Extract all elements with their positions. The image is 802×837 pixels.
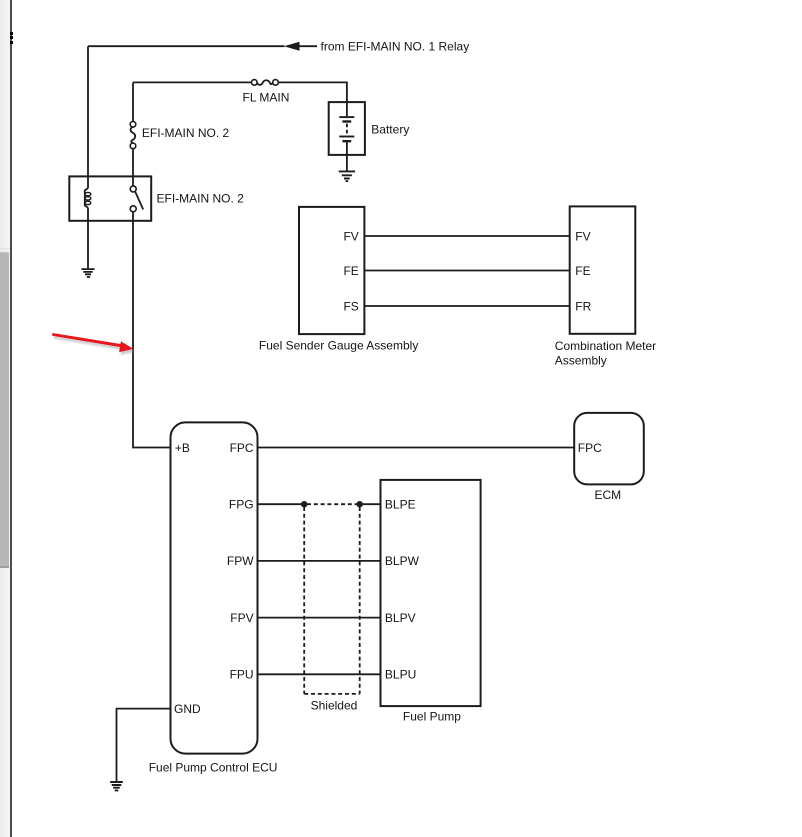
svg-text:FV: FV (343, 229, 358, 243)
svg-text:FR: FR (575, 299, 591, 313)
splitter border line (10, 0, 12, 837)
wire relay switch down to +B (133, 212, 171, 448)
svg-text:FL MAIN: FL MAIN (243, 91, 290, 105)
svg-text:Shielded: Shielded (311, 698, 358, 712)
svg-text:FE: FE (575, 264, 590, 278)
splitter grip dots (10, 32, 13, 35)
svg-text:FPV: FPV (230, 611, 253, 625)
junction dot right (357, 501, 363, 507)
relay box EFI-MAIN NO. 2 (69, 176, 151, 220)
svg-text:FE: FE (343, 264, 358, 278)
svg-text:+B: +B (175, 441, 190, 455)
fusible link EFI-MAIN NO. 2 (130, 122, 136, 149)
svg-text:ECM: ECM (595, 488, 622, 502)
fuel sender gauge assembly box (299, 207, 364, 334)
ground (relay coil) (81, 269, 94, 277)
svg-text:FS: FS (343, 299, 358, 313)
wire FV (364, 235, 569, 237)
battery box (329, 102, 365, 155)
svg-text:Fuel Pump: Fuel Pump (403, 709, 461, 723)
svg-text:Battery: Battery (371, 123, 409, 137)
svg-text:BLPV: BLPV (385, 611, 416, 625)
wire coil to ground (87, 208, 89, 269)
svg-text:from EFI-MAIN NO. 1 Relay: from EFI-MAIN NO. 1 Relay (321, 39, 470, 53)
svg-text:Assembly: Assembly (555, 354, 607, 368)
arrowhead pointing left (284, 42, 300, 51)
fuel pump control ECU box (171, 422, 258, 753)
ground (battery) (339, 171, 355, 181)
wire left vertical riser to relay coil (87, 46, 89, 188)
sidebar separator line (0, 248, 10, 249)
svg-text:FPU: FPU (230, 668, 254, 682)
relay switch contacts (130, 186, 143, 212)
sidebar panel (0, 0, 10, 837)
wire FPV (258, 617, 381, 619)
svg-text:Fuel Sender Gauge Assembly: Fuel Sender Gauge Assembly (259, 338, 418, 352)
svg-text:FPC: FPC (578, 441, 602, 455)
wire short segment arrow to label (299, 45, 317, 47)
svg-text:EFI-MAIN NO. 2: EFI-MAIN NO. 2 (142, 126, 230, 140)
red pointer arrow (52, 333, 135, 355)
wire GND to ground (117, 709, 171, 782)
svg-text:BLPW: BLPW (385, 554, 420, 568)
wire FPG dashed shield top (307, 503, 357, 505)
svg-text:EFI-MAIN NO. 2: EFI-MAIN NO. 2 (157, 191, 245, 205)
svg-text:BLPU: BLPU (385, 668, 416, 682)
wire FPG solid parts (258, 503, 381, 505)
wire FE (364, 270, 569, 272)
combination meter assembly box (570, 206, 636, 333)
shield dashed box (304, 507, 360, 694)
wire vertical from FL MAIN feed down to fusible link (132, 82, 134, 121)
junction dot left (301, 501, 307, 507)
fuel pump box (381, 480, 481, 706)
wire fusible link to relay switch (132, 149, 134, 186)
svg-text:Fuel Pump Control ECU: Fuel Pump Control ECU (149, 761, 278, 775)
svg-text:FV: FV (575, 229, 590, 243)
wire FPW (258, 560, 381, 562)
fuse FL MAIN symbol (252, 80, 279, 86)
wire second horizontal FL MAIN feed (133, 82, 347, 102)
svg-text:BLPE: BLPE (385, 498, 416, 512)
svg-text:FPG: FPG (229, 498, 254, 512)
svg-text:FPW: FPW (227, 554, 254, 568)
svg-text:FPC: FPC (230, 441, 254, 455)
sidebar scrollbar thumb (0, 252, 9, 568)
wire FPU (258, 673, 381, 675)
ECM box (574, 413, 644, 485)
relay coil (85, 188, 91, 207)
svg-text:Combination Meter: Combination Meter (555, 339, 656, 353)
wire FS to FR (364, 305, 569, 307)
ground (ECU GND) (110, 782, 123, 790)
wire FPC ECU to ECM (258, 447, 575, 449)
battery cells (339, 102, 354, 171)
wire top horizontal from vertical riser to arrow (88, 45, 285, 47)
svg-text:GND: GND (174, 702, 201, 716)
